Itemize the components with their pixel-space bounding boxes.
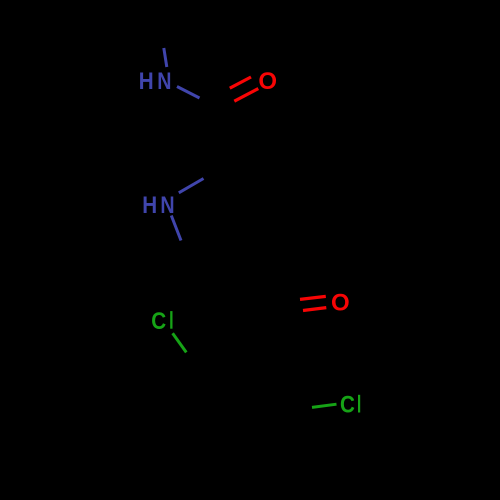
double bond C=O (ketone carbonyl), O-colored half, outer line <box>303 308 326 311</box>
bond C-Cl (chlorine 1), Cl-colored half <box>173 333 187 352</box>
bond N1-C2 (pyrrole ring), N-colored half <box>179 179 204 193</box>
bond N-C(=O) (amide), N-colored half <box>177 87 200 99</box>
double bond C=O (amide carbonyl), O-colored half, inner line <box>230 77 251 88</box>
atom label l of chlorine 1 <box>170 311 172 329</box>
bond C-Cl (chlorine 2), Cl-colored half <box>312 404 337 407</box>
svg-text:H: H <box>142 192 157 219</box>
svg-text:C: C <box>151 308 166 335</box>
svg-text:C: C <box>340 391 355 418</box>
double bond C=O (ketone carbonyl), O-colored half, inner line <box>300 296 326 299</box>
svg-text:H: H <box>139 67 154 94</box>
bond CH3-N (amide methyl bond), N-colored half <box>164 48 167 67</box>
double bond C=O (amide carbonyl), O-colored half, outer line <box>234 89 258 102</box>
bond N1-C5 (pyrrole ring), N-colored half <box>171 216 181 241</box>
svg-text:N: N <box>160 191 174 218</box>
svg-text:N: N <box>157 67 171 94</box>
atom label l of chlorine 2 <box>358 395 360 413</box>
svg-text:O: O <box>258 68 277 95</box>
svg-text:O: O <box>331 289 350 316</box>
